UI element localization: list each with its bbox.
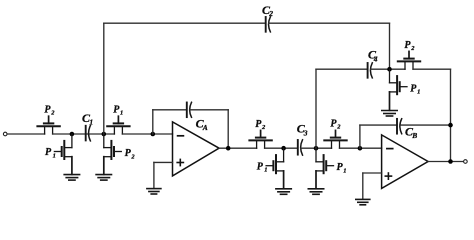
wire input to first switch xyxy=(7,133,45,135)
wire switch to op-amp U1 inverting input xyxy=(122,133,172,135)
svg-text:2: 2 xyxy=(336,124,341,131)
node J (output junction) xyxy=(448,159,453,164)
transistor switch P2 (series, top right) xyxy=(398,51,420,69)
node I (CB / right vertical junction) xyxy=(448,123,453,128)
ground (node B shunt) xyxy=(96,175,111,181)
wire U2 output xyxy=(428,161,464,163)
wire node C up to CA feedback xyxy=(152,110,154,134)
transistor switch P1 (shunt at node E, gate left) xyxy=(266,148,284,188)
op-amp U2 xyxy=(382,135,429,189)
wire C4 to node H xyxy=(371,68,405,70)
ground (U2 non-inverting input) xyxy=(356,199,370,204)
wire C4 branch: node F up xyxy=(315,69,317,148)
wire C2 feedback: node B up xyxy=(103,23,105,134)
node F (junction dot, after C3) xyxy=(314,146,319,151)
ground (node A shunt) xyxy=(64,175,79,181)
node G (U2 inverting input junction) xyxy=(358,146,363,151)
wire CB feedback: node G up xyxy=(359,125,361,148)
wire switch to right vertical xyxy=(413,68,451,70)
wire U1 output xyxy=(219,147,257,149)
capacitor CB xyxy=(397,119,402,134)
capacitor C3 xyxy=(298,140,303,155)
wire switch to node A xyxy=(53,133,115,135)
wire to node E xyxy=(265,147,298,149)
wire U2 non-inverting input to ground xyxy=(363,172,382,174)
svg-text:P: P xyxy=(45,147,52,158)
svg-text:2: 2 xyxy=(410,45,415,52)
wire CA feedback top left segment xyxy=(153,109,187,111)
wire to op-amp U2 inverting input xyxy=(340,147,382,149)
transistor switch P1 (shunt at node F, gate right) xyxy=(316,148,334,188)
wire right vertical down to output xyxy=(450,69,452,161)
svg-text:1: 1 xyxy=(53,152,56,159)
node D (U1 output junction) xyxy=(226,146,231,151)
svg-text:1: 1 xyxy=(89,117,93,126)
capacitor CA xyxy=(187,102,192,117)
capacitor C2 xyxy=(266,17,271,32)
ground (node H shunt) xyxy=(382,111,397,117)
wire C2 feedback: top right segment xyxy=(269,22,390,24)
node A (junction dot) xyxy=(70,132,75,137)
svg-text:2: 2 xyxy=(50,110,55,117)
input terminal xyxy=(3,132,7,136)
wire C2 feedback: top left segment xyxy=(104,22,266,24)
capacitor C4 xyxy=(368,63,373,78)
svg-text:3: 3 xyxy=(303,128,308,137)
svg-text:P: P xyxy=(257,161,264,172)
svg-text:4: 4 xyxy=(373,54,378,63)
svg-text:1: 1 xyxy=(343,167,346,174)
svg-text:1: 1 xyxy=(264,167,267,174)
op-amp U1 xyxy=(173,122,220,176)
svg-text:2: 2 xyxy=(130,154,135,161)
wire CB feedback horizontal xyxy=(360,124,397,126)
ground (node F shunt) xyxy=(308,189,323,195)
transistor switch P2 (series, input) xyxy=(37,116,59,134)
transistor switch P2 (series, middle first) xyxy=(249,130,271,148)
wire C2 feedback: down to node H xyxy=(389,23,391,69)
svg-text:B: B xyxy=(411,131,417,140)
wire CA feedback down to U1 output xyxy=(227,110,229,148)
ground (node E shunt) xyxy=(276,189,291,195)
wire CA feedback top right segment xyxy=(190,109,228,111)
transistor switch P1 (shunt at node A, gate left) xyxy=(54,134,72,174)
transistor switch P1 (shunt at node H, gate right) xyxy=(390,69,408,110)
wire C4 branch horizontal xyxy=(316,68,368,70)
svg-text:1: 1 xyxy=(417,89,420,96)
node E (junction dot) xyxy=(281,146,286,151)
wire CB feedback to right vertical xyxy=(400,124,451,126)
transistor switch P1 (series, second) xyxy=(107,116,129,134)
svg-text:2: 2 xyxy=(268,9,273,18)
svg-text:1: 1 xyxy=(120,110,123,117)
capacitor C1 xyxy=(86,126,91,141)
node B (junction dot, after C1) xyxy=(102,132,107,137)
node H (junction dot) xyxy=(387,67,392,72)
wire to node F xyxy=(301,147,332,149)
transistor switch P2 (series, middle second) xyxy=(324,130,346,148)
output terminal xyxy=(464,160,468,164)
node C (U1 inverting input junction) xyxy=(151,132,156,137)
wire U1 non-inverting input to ground xyxy=(154,161,173,163)
transistor switch P2 (shunt at node B, gate right) xyxy=(104,134,122,174)
svg-text:A: A xyxy=(202,123,208,132)
ground (U1 non-inverting input) xyxy=(147,189,161,194)
